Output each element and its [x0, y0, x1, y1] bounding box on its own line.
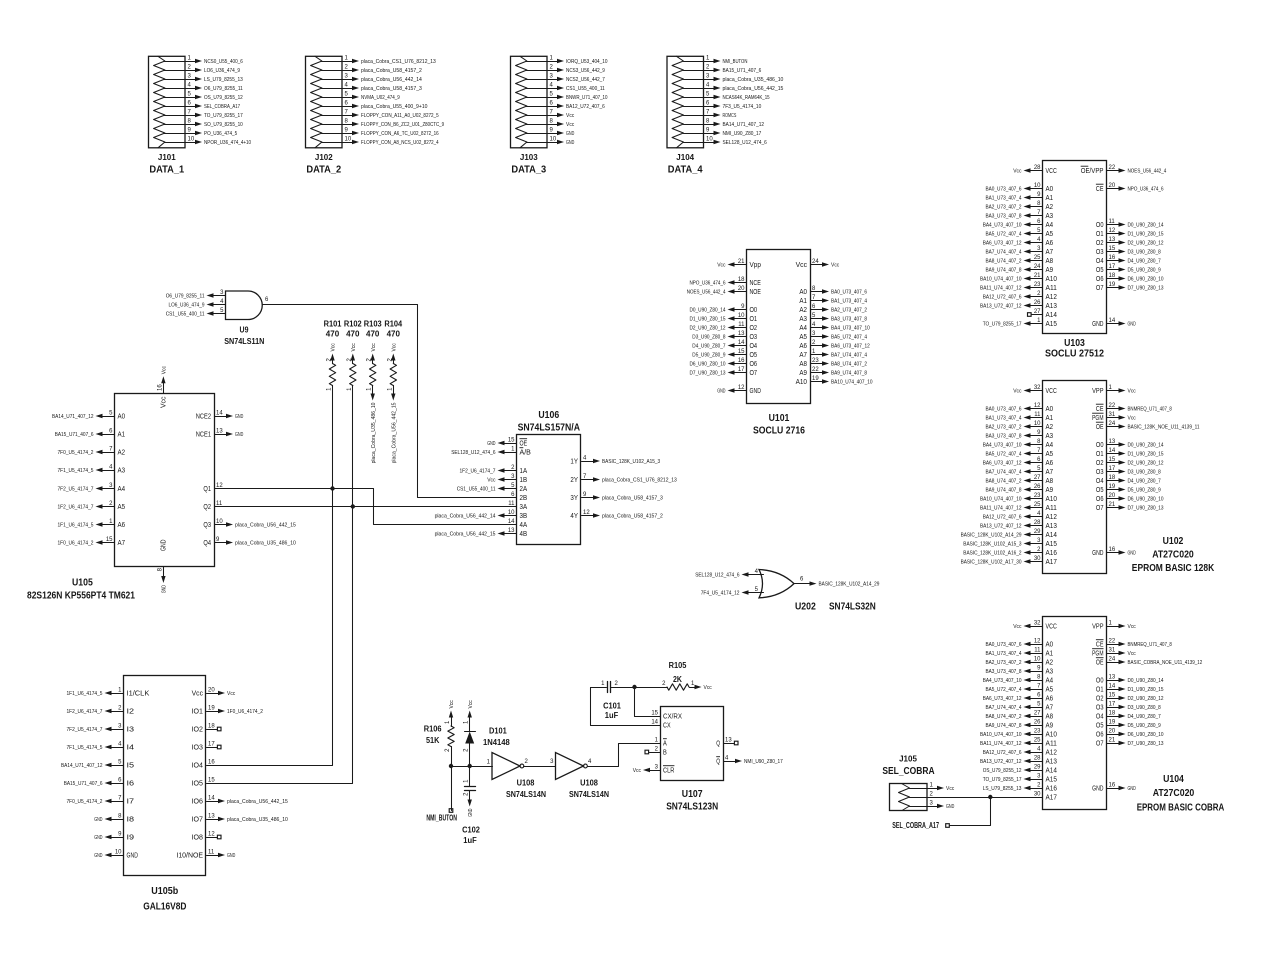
svg-text:BASIC_128K_U102_A14_29: BASIC_128K_U102_A14_29 [819, 582, 880, 588]
U102 pin 13 (O0) [1096, 439, 1164, 449]
svg-text:D1_U90_Z80_15: D1_U90_Z80_15 [1128, 231, 1164, 237]
svg-text:A6: A6 [1046, 458, 1054, 467]
svg-text:D1_U90_Z80_15: D1_U90_Z80_15 [690, 316, 726, 322]
U105b pin 11 (I10/NOE) [176, 850, 235, 860]
svg-text:1A: 1A [520, 466, 528, 475]
svg-text:7: 7 [550, 110, 554, 116]
svg-text:A4: A4 [1046, 676, 1054, 685]
junction Q1/R101 [330, 486, 334, 490]
svg-text:FLOPPY_CON_B6_ZC2_U01_Z80CTC_9: FLOPPY_CON_B6_ZC2_U01_Z80CTC_9 [361, 122, 444, 128]
svg-text:2: 2 [464, 792, 470, 796]
U106 pin 12 (4Y) [570, 510, 663, 520]
svg-text:NPO_U36_474_6: NPO_U36_474_6 [690, 280, 726, 286]
svg-text:BNWR_U71_407_10: BNWR_U71_407_10 [566, 95, 608, 101]
svg-text:Vcc: Vcc [566, 113, 575, 119]
wire U108b output to U107 pin 1 [588, 744, 661, 767]
svg-text:O6_U79_8255_11: O6_U79_8255_11 [166, 293, 205, 299]
U104 pin 12 (A0) [986, 639, 1054, 649]
svg-text:O5: O5 [750, 350, 758, 359]
svg-text:PGM: PGM [1092, 649, 1103, 658]
wire U108a to U108b [524, 766, 556, 768]
svg-text:25: 25 [1034, 502, 1041, 508]
U107 pin 4 (Q) [716, 756, 783, 766]
svg-text:18: 18 [208, 724, 215, 730]
U105b pin 20 (Vcc) [192, 688, 236, 698]
svg-text:29: 29 [1034, 765, 1041, 771]
svg-text:R101: R101 [324, 319, 342, 329]
resistor R106 51K [424, 720, 455, 752]
svg-text:2: 2 [1037, 783, 1041, 789]
svg-text:6: 6 [550, 101, 554, 107]
U103 pin 18 (O6) [1096, 273, 1164, 283]
svg-text:Q: Q [716, 757, 720, 766]
svg-text:A10: A10 [1046, 730, 1057, 739]
U101 pin 10 (O1) [690, 313, 758, 323]
label U107 [666, 789, 718, 813]
J101 pin 5 [165, 92, 243, 101]
svg-text:BA2_U73_407_2: BA2_U73_407_2 [986, 424, 1022, 430]
svg-text:9: 9 [1037, 666, 1041, 672]
or-gate U202 SN74LS32N body [759, 570, 794, 598]
svg-text:placa_Cobra_U56_442_15: placa_Cobra_U56_442_15 [227, 799, 288, 805]
J101 pin 3 [165, 74, 243, 83]
U105 pin 8 power GND [157, 567, 167, 594]
svg-text:A1: A1 [1046, 649, 1054, 658]
svg-text:BA4_U73_407_10: BA4_U73_407_10 [831, 325, 870, 331]
J103 pin 9 [527, 128, 575, 137]
svg-text:A9: A9 [1046, 485, 1054, 494]
U102 pin 11 (A1) [986, 412, 1054, 422]
svg-text:O4: O4 [1096, 256, 1104, 265]
svg-text:Vcc: Vcc [1013, 168, 1022, 174]
svg-text:23: 23 [1034, 493, 1041, 499]
svg-text:BA5_U72_407_4: BA5_U72_407_4 [986, 231, 1022, 237]
svg-text:Vcc: Vcc [1128, 624, 1137, 630]
svg-text:10: 10 [706, 137, 713, 143]
svg-text:A2: A2 [1046, 658, 1054, 667]
svg-text:O6: O6 [1096, 274, 1104, 283]
svg-text:Vcc: Vcc [371, 343, 377, 352]
svg-text:SN74LS14N: SN74LS14N [569, 789, 609, 799]
U102 pin 25 (A11) [980, 502, 1057, 512]
svg-text:D6_U90_Z80_10: D6_U90_Z80_10 [1128, 496, 1164, 502]
svg-text:3: 3 [188, 74, 192, 80]
svg-text:BA7_U74_407_4: BA7_U74_407_4 [986, 705, 1022, 711]
U101 pin 8 (A0) [799, 286, 867, 296]
svg-text:D3_U90_Z80_8: D3_U90_Z80_8 [1128, 249, 1161, 255]
U102 pin 18 (O4) [1096, 475, 1161, 485]
svg-text:BA10_U74_407_10: BA10_U74_407_10 [980, 276, 1022, 282]
svg-text:1: 1 [601, 681, 605, 687]
junction J105 pin2 / SEL_COBRA_A17 [988, 795, 992, 799]
svg-text:7F0_U5_4174_2: 7F0_U5_4174_2 [58, 450, 94, 456]
svg-text:NOE: NOE [750, 287, 761, 296]
IC U101 body [747, 250, 811, 404]
U104 pin 11 (A1) [986, 648, 1054, 658]
svg-text:placa_Cobra_U35_486_10: placa_Cobra_U35_486_10 [371, 403, 377, 464]
svg-text:15: 15 [508, 438, 515, 444]
svg-text:placa_Cobra_U58_4157_2: placa_Cobra_U58_4157_2 [361, 68, 422, 74]
svg-text:CS1_U55_400_11: CS1_U55_400_11 [457, 486, 496, 492]
svg-text:SN74LS14N: SN74LS14N [506, 789, 546, 799]
U103 pin 6 (A4) [983, 219, 1053, 229]
svg-text:A3: A3 [118, 466, 126, 475]
J102 pin 4 [322, 83, 422, 92]
U101 pin 9 (O0) [690, 304, 758, 314]
svg-text:B: B [663, 748, 667, 757]
svg-text:BA13_U72_407_12: BA13_U72_407_12 [980, 523, 1022, 529]
svg-text:D3_U90_Z80_8: D3_U90_Z80_8 [692, 334, 725, 340]
junction R106/node [449, 764, 453, 768]
U104 pin 14 (O1) [1096, 684, 1164, 694]
U103 pin 3 (A7) [986, 246, 1054, 256]
svg-text:CS1_U55_400_11: CS1_U55_400_11 [566, 86, 605, 92]
power GND below C102 [468, 799, 474, 817]
svg-text:O0: O0 [1096, 440, 1104, 449]
svg-text:29: 29 [1034, 529, 1041, 535]
svg-text:CS1_U55_400_11: CS1_U55_400_11 [166, 311, 205, 317]
U104 pin 8 (A4) [983, 675, 1053, 685]
U103 pin 23 (A11) [980, 282, 1057, 292]
U107 pin 3 (CLR) power Vcc [633, 765, 675, 775]
svg-text:BA4_U73_407_10: BA4_U73_407_10 [983, 442, 1022, 448]
svg-text:3: 3 [655, 765, 659, 771]
svg-text:16: 16 [1109, 255, 1116, 261]
svg-text:Vcc: Vcc [468, 700, 474, 709]
svg-text:NMI_U90_Z80_17: NMI_U90_Z80_17 [744, 759, 783, 765]
U102 pin 15 (O2) [1096, 457, 1164, 467]
J104 pin 10 [684, 137, 767, 146]
U106 pin 6 (2B) [511, 492, 527, 502]
svg-text:J102: J102 [315, 152, 333, 162]
svg-text:placa_Cobra_U58_4157_3: placa_Cobra_U58_4157_3 [602, 495, 663, 501]
svg-text:1: 1 [691, 681, 695, 687]
svg-text:13: 13 [1109, 675, 1116, 681]
U105 pin 9 (Q4) [203, 537, 296, 547]
svg-text:5: 5 [1037, 702, 1041, 708]
svg-text:15: 15 [738, 349, 745, 355]
svg-text:1: 1 [327, 387, 333, 391]
J104 pin 9 [684, 128, 762, 137]
svg-text:I4: I4 [127, 743, 135, 752]
U101 pin 6 (A2) [799, 304, 867, 314]
svg-text:A6: A6 [118, 520, 126, 529]
svg-text:GND: GND [162, 585, 168, 593]
svg-text:O6_U79_8255_11: O6_U79_8255_11 [204, 86, 243, 92]
svg-text:9: 9 [706, 128, 710, 134]
svg-text:O7: O7 [1096, 283, 1104, 292]
svg-text:GND: GND [717, 388, 725, 394]
J102 pin 3 [322, 74, 422, 83]
U102 pin 6 (A6) [983, 457, 1053, 467]
svg-text:O0: O0 [750, 305, 758, 314]
svg-text:I1/CLK: I1/CLK [127, 689, 150, 698]
svg-text:13: 13 [738, 331, 745, 337]
U103 pin 21 (A10) [980, 273, 1057, 283]
svg-text:3: 3 [706, 74, 710, 80]
U105b pin 6 (I6) [64, 778, 134, 788]
svg-text:22: 22 [1109, 403, 1116, 409]
svg-text:O3: O3 [1096, 703, 1104, 712]
svg-text:A9: A9 [1046, 265, 1054, 274]
svg-text:BA14_U71_407_12: BA14_U71_407_12 [723, 122, 765, 128]
U104 pin 28 (A13) [980, 756, 1057, 766]
U103 pin 14 (GND) [1092, 318, 1136, 328]
svg-text:J105: J105 [899, 754, 917, 764]
svg-text:10: 10 [345, 137, 352, 143]
svg-text:FLOPPY_CON_A8_NCS_U02_8272_4: FLOPPY_CON_A8_NCS_U02_8272_4 [361, 140, 439, 146]
svg-text:2: 2 [550, 65, 554, 71]
svg-text:U108: U108 [580, 778, 598, 788]
J101 pin 1 [165, 56, 243, 65]
svg-text:GND: GND [1092, 784, 1104, 793]
svg-text:LS_U79_8255_13: LS_U79_8255_13 [983, 786, 1022, 792]
junction D101/node [468, 764, 472, 768]
svg-text:2: 2 [525, 759, 529, 765]
svg-text:A1: A1 [1046, 413, 1054, 422]
U103 pin 26 (A13) [980, 300, 1057, 310]
svg-text:GND: GND [1128, 786, 1136, 792]
svg-text:A12: A12 [1046, 292, 1057, 301]
svg-text:7: 7 [706, 110, 710, 116]
J102 pin 10 [322, 137, 439, 146]
svg-text:16: 16 [738, 358, 745, 364]
net label NMI_BUTON [426, 809, 457, 823]
U101 pin 13 (O3) [692, 331, 757, 341]
svg-text:BA9_U74_407_8: BA9_U74_407_8 [831, 370, 867, 376]
svg-text:11: 11 [1034, 648, 1041, 654]
svg-text:D6_U90_Z80_10: D6_U90_Z80_10 [690, 361, 726, 367]
svg-text:BA1_U73_407_4: BA1_U73_407_4 [986, 415, 1022, 421]
svg-text:D7_U90_Z80_13: D7_U90_Z80_13 [1128, 505, 1164, 511]
svg-text:Vcc: Vcc [704, 685, 713, 691]
U103 pin 11 (O0) [1096, 219, 1164, 229]
svg-text:24: 24 [812, 259, 819, 265]
svg-text:BA8_U74_407_2: BA8_U74_407_2 [986, 258, 1022, 264]
svg-text:4: 4 [1037, 747, 1041, 753]
svg-text:A1: A1 [799, 296, 807, 305]
svg-text:A7: A7 [118, 538, 126, 547]
svg-text:26: 26 [1034, 720, 1041, 726]
svg-text:5: 5 [345, 92, 349, 98]
svg-text:BA0_U73_407_6: BA0_U73_407_6 [986, 186, 1022, 192]
U104 pin 29 (A14) [983, 765, 1057, 775]
J103 pin 1 [527, 56, 608, 65]
svg-text:LO6_U36_474_9: LO6_U36_474_9 [169, 302, 205, 308]
U102 pin 19 (O5) [1096, 484, 1161, 494]
svg-text:IO6: IO6 [192, 797, 203, 806]
svg-text:D101: D101 [489, 726, 507, 736]
power Vcc above R103 [371, 343, 377, 364]
svg-text:I8: I8 [127, 815, 135, 824]
U103 pin 2 (A12) [983, 291, 1057, 301]
svg-text:Vcc: Vcc [449, 700, 455, 709]
svg-text:11: 11 [208, 850, 215, 856]
svg-text:11: 11 [1109, 219, 1116, 225]
J101 pin 8 [165, 119, 243, 128]
svg-text:BA10_U74_407_10: BA10_U74_407_10 [831, 379, 873, 385]
J104 pin 4 [684, 83, 784, 92]
svg-text:BA1_U73_407_4: BA1_U73_407_4 [831, 298, 867, 304]
U102 pin 24 (OE) [1096, 421, 1200, 431]
U104 pin 2 (A16) [983, 783, 1057, 793]
U102 pin 12 (A0) [986, 403, 1054, 413]
U106 pin 9 (3Y) [570, 492, 663, 502]
svg-text:82S126N KP556PT4 TM621: 82S126N KP556PT4 TM621 [27, 591, 135, 602]
svg-text:4: 4 [118, 742, 122, 748]
svg-text:D1_U90_Z80_15: D1_U90_Z80_15 [1128, 687, 1164, 693]
svg-text:25: 25 [1034, 255, 1041, 261]
J103 pin 8 [527, 119, 575, 128]
svg-text:17: 17 [738, 367, 745, 373]
U103 pin 9 (A1) [986, 192, 1054, 202]
svg-text:GND: GND [1128, 550, 1136, 556]
svg-text:BA12_U72_407_6: BA12_U72_407_6 [983, 294, 1022, 300]
U102 pin 16 (GND) [1092, 547, 1136, 557]
svg-text:U103: U103 [1064, 338, 1085, 349]
svg-text:A6: A6 [1046, 694, 1054, 703]
label U105 [27, 578, 135, 602]
svg-text:OE: OE [1096, 658, 1104, 667]
svg-text:15: 15 [208, 778, 215, 784]
U104 pin 18 (O4) [1096, 711, 1161, 721]
svg-text:NPO_U36_474_6: NPO_U36_474_6 [1128, 186, 1164, 192]
J101 pin 6 [165, 101, 241, 110]
U101 pin 5 (A3) [799, 313, 867, 323]
svg-text:I6: I6 [127, 779, 135, 788]
svg-text:placa_Cobra_U35_486_10: placa_Cobra_U35_486_10 [227, 817, 288, 823]
J103 pin 5 [527, 92, 608, 101]
svg-text:BA11_U74_407_12: BA11_U74_407_12 [980, 285, 1022, 291]
wire R102 / Q2 net to U105b IO5 [207, 386, 353, 784]
svg-text:22: 22 [1109, 165, 1116, 171]
svg-text:R106: R106 [424, 724, 442, 734]
svg-text:Vcc: Vcc [227, 691, 236, 697]
svg-text:21: 21 [1109, 738, 1116, 744]
U104 pin 9 (A3) [986, 666, 1054, 676]
svg-text:O7: O7 [750, 368, 758, 377]
svg-text:24: 24 [1034, 264, 1041, 270]
U105 pin 6 (A1) [55, 429, 125, 439]
U102 pin 1 (VPP) [1092, 385, 1136, 395]
J104 pin 2 [684, 65, 762, 74]
svg-text:470: 470 [326, 329, 340, 339]
svg-text:A11: A11 [1046, 503, 1057, 512]
svg-text:1: 1 [464, 720, 470, 724]
svg-text:U101: U101 [769, 413, 790, 424]
svg-text:6: 6 [188, 101, 192, 107]
svg-text:17: 17 [1109, 466, 1116, 472]
U104 pin 17 (O3) [1096, 702, 1161, 712]
svg-text:GND: GND [946, 804, 954, 810]
svg-text:A17: A17 [1046, 793, 1057, 802]
svg-text:A2: A2 [118, 448, 126, 457]
svg-text:A0: A0 [118, 412, 126, 421]
svg-text:27: 27 [1034, 711, 1041, 717]
svg-text:6: 6 [800, 577, 804, 583]
svg-text:13: 13 [725, 738, 732, 744]
svg-text:O0: O0 [1096, 220, 1104, 229]
svg-text:1: 1 [1109, 621, 1113, 627]
svg-text:J104: J104 [676, 152, 694, 162]
U105b pin 9 (I9) [94, 832, 134, 842]
svg-text:U102: U102 [1163, 536, 1184, 547]
wire U105 Q1 to U106 4A [215, 489, 517, 525]
svg-text:BA0_U73_407_6: BA0_U73_407_6 [986, 406, 1022, 412]
J102 pin 8 [322, 119, 445, 128]
svg-text:1F0_U6_4174_2: 1F0_U6_4174_2 [58, 540, 94, 546]
svg-text:D4_U90_Z80_7: D4_U90_Z80_7 [692, 343, 725, 349]
U101 pin 2 (A6) [799, 340, 869, 350]
svg-text:1: 1 [930, 783, 934, 789]
U104 pin 24 (OE) [1096, 657, 1202, 667]
power Vcc above R102 [351, 343, 357, 364]
U105b pin 17 (IO3) [192, 742, 221, 752]
svg-text:9: 9 [345, 128, 349, 134]
svg-text:A9: A9 [1046, 721, 1054, 730]
svg-text:placa_Cobra_CS1_U76_8212_13: placa_Cobra_CS1_U76_8212_13 [602, 477, 677, 483]
svg-text:TO_U79_8255_17: TO_U79_8255_17 [983, 777, 1022, 783]
svg-text:BA2_U73_407_2: BA2_U73_407_2 [986, 660, 1022, 666]
svg-text:VCC: VCC [1046, 386, 1058, 395]
U101 pin 7 (A1) [799, 295, 867, 305]
svg-text:A5: A5 [1046, 449, 1054, 458]
svg-text:A4: A4 [1046, 440, 1054, 449]
svg-text:9: 9 [188, 128, 192, 134]
svg-text:3A: 3A [520, 502, 528, 511]
svg-text:CX/RX: CX/RX [663, 712, 682, 721]
svg-text:18: 18 [1109, 273, 1116, 279]
svg-text:22: 22 [1109, 639, 1116, 645]
svg-text:Vcc: Vcc [162, 366, 168, 375]
svg-text:7F0_U5_4174_2: 7F0_U5_4174_2 [67, 799, 103, 805]
svg-text:A16: A16 [1046, 784, 1057, 793]
svg-text:O4: O4 [1096, 712, 1104, 721]
svg-text:11: 11 [738, 322, 745, 328]
svg-text:A0: A0 [1046, 404, 1054, 413]
svg-text:BA15_U71_407_6: BA15_U71_407_6 [55, 432, 94, 438]
svg-text:O6: O6 [1096, 494, 1104, 503]
svg-text:NOES_U56_442_4: NOES_U56_442_4 [1128, 168, 1167, 174]
U106 pin 1 (A/B) [451, 447, 531, 457]
svg-text:OE/VPP: OE/VPP [1081, 166, 1104, 175]
svg-text:9: 9 [118, 832, 122, 838]
svg-text:31: 31 [1109, 412, 1116, 418]
svg-text:SN74LS157N/A: SN74LS157N/A [518, 423, 580, 434]
connector J101 (DATA_1) body [149, 56, 186, 148]
svg-text:LS_U79_8255_13: LS_U79_8255_13 [204, 77, 243, 83]
svg-text:12: 12 [738, 385, 745, 391]
svg-text:O2: O2 [1096, 458, 1104, 467]
svg-text:NCAS64K_RAM64K_15: NCAS64K_RAM64K_15 [723, 95, 770, 101]
U104 pin 13 (O0) [1096, 675, 1164, 685]
svg-text:7F2_U5_4174_7: 7F2_U5_4174_7 [67, 727, 103, 733]
U103 pin 8 (A2) [986, 201, 1054, 211]
svg-text:10: 10 [115, 850, 122, 856]
svg-text:A: A [663, 739, 667, 748]
svg-text:14: 14 [216, 411, 223, 417]
svg-text:SEL128_U12_474_6: SEL128_U12_474_6 [695, 572, 739, 578]
svg-text:placa_Cobra_U58_4157_3: placa_Cobra_U58_4157_3 [361, 86, 422, 92]
svg-text:3: 3 [1037, 774, 1041, 780]
J102 pin 2 [322, 65, 422, 74]
svg-text:19: 19 [1109, 282, 1116, 288]
U9 pin 5 [166, 308, 226, 317]
svg-text:U9: U9 [240, 325, 249, 335]
svg-text:EPROM BASIC COBRA: EPROM BASIC COBRA [1137, 803, 1225, 814]
svg-text:BA0_U73_407_6: BA0_U73_407_6 [831, 289, 867, 295]
U101 pin 1 (A7) [799, 349, 867, 359]
